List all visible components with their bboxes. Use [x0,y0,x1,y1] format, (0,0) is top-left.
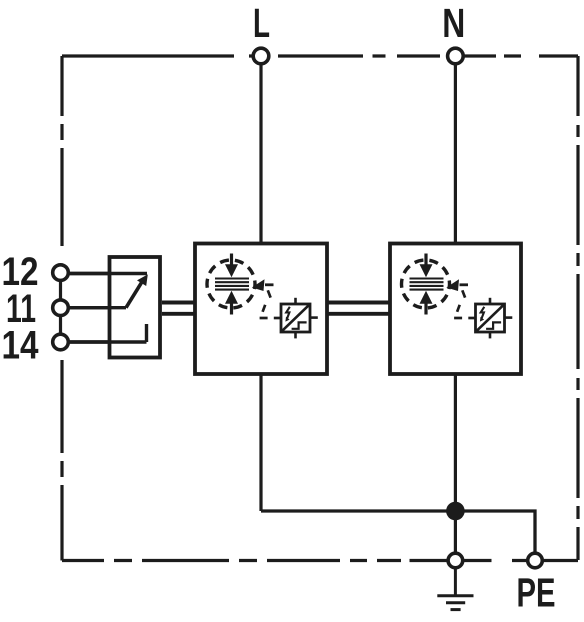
wire: double line module 1 to module 2 [326,303,391,314]
wire: junction down to earth terminal [454,511,457,553]
wire: module 2 down to junction [454,374,457,511]
spark gap bottom arrow [230,302,233,315]
junction node (PE bus / N leg) [446,502,465,521]
disconnector/monitoring box [281,304,310,332]
switch moving contact (from 11 toward 12) [61,272,148,275]
wire: contact 11 lead into switch box [61,306,127,309]
switch contact 14 (open, L-shape) [145,324,148,342]
wire: L terminal down to protection module 1 [259,63,262,243]
svg-text:N: N [442,0,465,46]
step response glyph [292,322,307,328]
wire: contact 12 lead into switch box [61,272,148,275]
enclosure dash-dot border: bottom side [62,559,578,562]
svg-text:14: 14 [2,324,40,368]
svg-text:L: L [253,0,270,46]
trigger control dashed line [260,290,281,318]
ground symbol [437,569,473,610]
enclosure dash-dot border: left side [60,56,63,561]
spark gap + varistor internals, module 1 [207,254,318,339]
terminal L circle [253,48,269,64]
PE terminal circle [528,553,543,568]
terminal 14 circle [53,334,69,350]
terminal 11 circle [53,300,69,316]
wire: left border solid segment linking terminals 12-11-14 [59,264,62,351]
lightning bolt glyph [286,307,290,319]
wire: contact 14 lead into switch box [61,340,147,343]
earth terminal circle [448,553,463,568]
disconnector box leads [296,298,318,339]
terminal N circle [448,48,464,64]
spark gap top arrow [230,254,233,267]
wire: PE bus and drop to PE terminal [261,511,535,553]
wire: double line switch box to module 1 [162,303,196,314]
spark gap electrode stack [215,279,249,290]
SPD module 1 box [195,244,327,375]
terminal 12 circle [53,265,69,281]
svg-text:PE: PE [517,570,556,616]
trigger arrow [252,279,265,291]
wire: N terminal down to protection module 2 [454,63,457,243]
spark gap dashed circle [207,260,255,308]
remote signalling changeover switch box [110,257,161,358]
wire: module 1 down to PE bus [259,374,262,511]
enclosure dash-dot border: top side [62,54,578,57]
SPD module 2 box [390,244,521,375]
enclosure dash-dot border: right side [576,56,579,560]
spark gap + varistor internals, module 2 (same symbol shifted) [402,254,513,339]
